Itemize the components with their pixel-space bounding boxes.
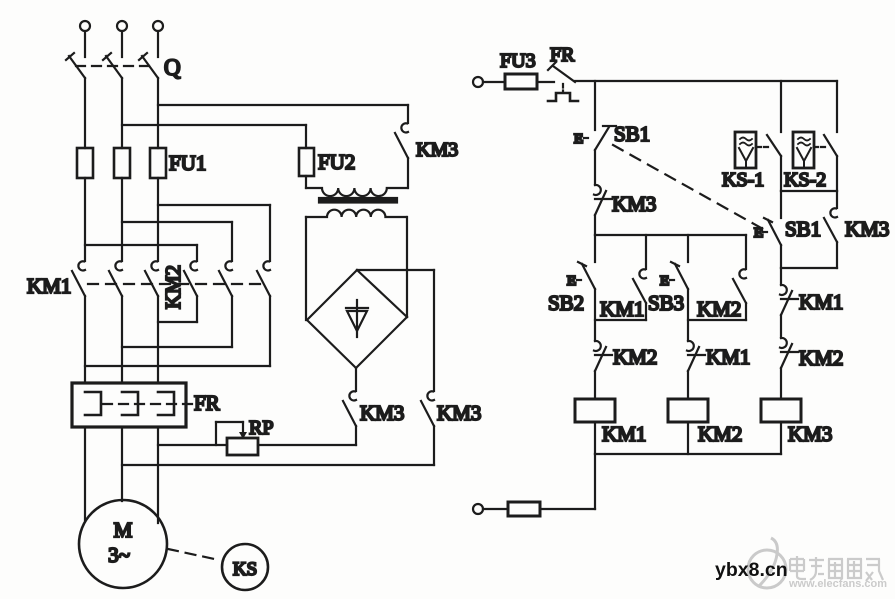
switch Q pole 1 [66,53,85,78]
wire KM3 coil down [780,422,782,454]
transformer T core [319,198,397,203]
switch Q pole 2 [103,53,122,78]
svg-text:SB1: SB1 [614,122,650,146]
contactor KM1 main contact pole3 [145,261,158,296]
wire phase3 Q to FU1 [157,78,159,148]
contactor KM1 main contact pole2 [109,261,122,296]
wire KS join to KM3 selfhold [836,191,838,208]
wire KM2 pole1 crossover to phase3 [158,321,197,323]
FR heater element 1 [85,392,101,415]
coil KM1 [575,399,615,422]
svg-text:KS-2: KS-2 [784,169,826,191]
wire tap phase3 to KM2 pole3 [158,204,270,206]
contactor KM3 brake contact left [343,391,356,445]
rheostat RP body [227,438,258,455]
contactor KM3 brake contact right [421,391,434,465]
wire KS join to SB1 NO [780,191,782,218]
FR heater element 2 [122,392,138,415]
linkage motor to KS [168,549,219,560]
contactor KM3 interlock contact (NC) [594,185,612,235]
thermal relay FR body [72,383,186,427]
control terminal bottom [473,504,483,514]
svg-text:www.elecfans.com: www.elecfans.com [788,578,887,590]
terminal L3 [153,21,163,31]
wire phase3 FU1 to KM1 [157,178,159,261]
wire KM1 coil down [594,422,596,454]
wire tap phase2 to FU2 [122,124,306,126]
bridge diode symbol [346,300,368,337]
terminal L1 [80,21,90,31]
contactor KM2 interlock in branch1 (NC) [594,341,612,399]
svg-text:KM1: KM1 [602,422,646,446]
contactor KM2 interlock in branch3 (NC) [780,338,798,399]
terminal L2 [117,21,127,31]
wire tap phase1 to KM2 pole1 [85,244,197,246]
linkage SB1 poles [613,145,763,229]
wire SB1 NO down [780,245,782,268]
svg-text:RP: RP [249,417,273,439]
svg-text:KM3: KM3 [416,139,458,161]
wire phase1 Q to FU1 [84,78,86,148]
svg-text:KM3: KM3 [845,217,889,241]
wire bus to SB3 [687,235,689,262]
wire phase3 KM1 to FR [157,296,159,383]
contactor KM2 main contact pole3 [257,261,270,296]
pushbutton SB1 stop (NC) [584,126,616,150]
wire bus to KS-2 contact [836,81,838,132]
wire L2 drop to Q [121,32,123,57]
contactor KM2 main contact pole1 [184,261,197,296]
contactor KM1 selfhold contact (NO) [633,269,646,320]
wire L1 drop to Q [84,32,86,57]
svg-text:FR: FR [194,391,220,415]
wire brake branch join [781,267,837,269]
svg-text:E: E [574,132,583,147]
svg-text:SB1: SB1 [785,217,821,241]
fuse FU1 pole1 [77,148,93,178]
fuse FU2 [299,148,314,176]
control bottom bus [595,453,781,455]
control branch bus [595,234,746,236]
wire secondary right to bridge [406,217,408,317]
svg-text:KM1: KM1 [706,345,750,369]
wire fuse to terminal [483,508,508,510]
svg-text:KM1: KM1 [27,274,71,298]
wire bus to SB1 [594,81,596,130]
svg-text:KM2: KM2 [698,422,742,446]
wire phase2 FU1 to KM1 [121,178,123,261]
svg-text:FU3: FU3 [500,50,536,72]
wire phase3 FR to motor [157,427,159,523]
wire phase1 KM1 to FR [84,296,86,383]
wire SB1 to KM3 interlock [594,150,596,185]
svg-text:E: E [660,274,669,289]
wire KM2 pole1 down [196,296,198,322]
label M 3~ [108,518,133,567]
contactor KM2 selfhold contact (NO) [733,269,746,320]
wire KS join bus [781,190,837,192]
fuse FU2 lead [305,125,307,148]
wire FU2 to transformer [305,176,307,188]
motor M [79,500,167,588]
wire KM2 pole2 crossover to phase2 [122,346,232,348]
thermal contact FR (NC) [548,62,578,101]
switch Q pole 3 [139,53,158,78]
wire bus to KS-1 contact [780,81,782,132]
wire tap phase3 to KM3 top [158,104,408,106]
svg-text:SB2: SB2 [548,291,584,315]
pushbutton SB1 brake pole (NO) [763,218,781,245]
wire phase2 Q to FU1 [121,78,123,148]
wire bottom bus drop [594,454,596,509]
coil KM2 [668,399,708,422]
pushbutton SB3 start rev (NO) [670,262,688,289]
svg-text:KM1: KM1 [799,290,843,314]
contactor KM3 selfhold contact (NO) [824,208,837,268]
wire tap phase2 to KM2 pole2 [122,221,232,223]
wire bus to SB2 [594,235,596,262]
svg-text:Q: Q [164,55,181,80]
wire phase1 FU1 to KM1 [84,178,86,261]
wire to bottom fuse [540,508,595,510]
svg-text:FU1: FU1 [169,151,206,175]
wire KM2 selfhold join [688,319,746,321]
fuse FU1 pole3 [150,148,166,178]
rheostat RP wiper short link [216,422,243,445]
svg-text:3~: 3~ [108,543,130,567]
svg-text:FU2: FU2 [318,150,355,174]
transformer T primary [306,188,408,196]
wire terminal to FU3 [483,81,505,83]
fuse FU bottom [508,502,540,516]
contactor KM1 interlock in branch3 (NC) [780,268,798,338]
control bus top [575,80,837,82]
svg-text:SB3: SB3 [648,291,684,315]
svg-text:FR: FR [550,44,575,66]
speed relay KS-1 body [735,132,756,168]
contactor KM3 contact top [395,105,408,188]
rheostat RP feed wire [158,444,227,446]
wire secondary left to bridge [305,217,307,320]
wire phase1 FR to motor [84,427,86,520]
watermark chinese characters [790,556,883,581]
svg-text:ybx8.cn: ybx8.cn [715,559,788,581]
control terminal top [473,77,483,87]
wire bus to KM1 aux [645,235,647,269]
FR heater element 3 [158,392,174,415]
fuse FU1 pole2 [114,148,130,178]
wire phase2 FR to motor [121,427,123,501]
svg-text:KM3: KM3 [788,422,832,446]
svg-text:KM3: KM3 [360,401,404,425]
speed relay KS-2 body [793,132,814,168]
svg-text:KM3: KM3 [612,192,656,216]
wire KM2 pole3 crossover to phase1 [85,365,270,367]
svg-text:KM2: KM2 [697,297,741,321]
fuse FU3 [505,74,537,89]
wire bus to KM2 aux [745,235,747,269]
svg-text:KM2: KM2 [161,265,185,309]
wire KM2 pole3 stub [269,205,271,261]
svg-text:KS: KS [233,559,257,580]
contactor KM1 interlock in branch2 (NC) [687,341,705,399]
svg-text:KM2: KM2 [799,346,843,370]
svg-text:KM2: KM2 [613,345,657,369]
wire brake return to phase2 [122,464,434,466]
FR linkage dashes [103,403,193,405]
coil KM3 [761,399,801,422]
wire SB3 down [687,289,689,341]
watermark logo swirl [748,538,786,588]
svg-text:E: E [567,274,576,289]
wire KM2 pole3 down [269,296,271,366]
wire KM2 pole1 stub [196,245,198,261]
wire SB2 down [594,289,596,341]
svg-text:E: E [754,226,763,241]
pushbutton SB2 start fwd (NO) [577,262,595,289]
rheostat RP wiper arrow [239,422,247,439]
svg-text:KM3: KM3 [437,401,481,425]
wire RP to KM3 brake left [258,444,356,446]
wire phase2 KM1 to FR [121,296,123,383]
transformer T secondary [306,210,406,217]
speed contact KS-1 (NO) [757,135,781,191]
contactor KM2 main contact pole2 [219,261,232,296]
svg-text:M: M [114,518,133,542]
speed contact KS-2 (NO) [814,135,837,191]
wire KM2 pole2 down [231,296,233,347]
linkage KM1 KM2 main contacts [88,283,262,285]
wire KM1 selfhold join [595,319,646,321]
switch Q linkage [76,65,152,67]
wire KM2 pole2 stub [231,222,233,261]
svg-text:KS-1: KS-1 [722,169,764,191]
contactor KM1 main contact pole1 [72,261,85,296]
wire KM2 coil down [687,422,689,454]
speed relay KS body [222,544,268,590]
bridge rectifier VC [307,270,407,368]
wire bridge plus to KM3 brake right [357,270,434,391]
wire FU3 to FR contact [537,81,554,83]
wire bridge minus down [355,368,357,391]
wire L3 drop to Q [157,32,159,57]
svg-text:KM1: KM1 [600,297,644,321]
